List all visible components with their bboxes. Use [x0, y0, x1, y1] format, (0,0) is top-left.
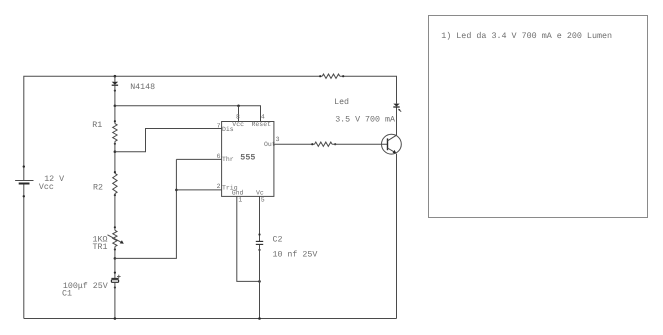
svg-text:3.5 V 700 mA: 3.5 V 700 mA	[335, 116, 395, 125]
resistor R4 base	[311, 142, 336, 146]
svg-text:Reset: Reset	[252, 121, 272, 128]
wire top rail left	[24, 76, 322, 180]
svg-text:C1: C1	[62, 289, 72, 298]
svg-text:C2: C2	[273, 236, 283, 245]
svg-text:7: 7	[217, 122, 221, 129]
wire 555 pin 3 Out to R4	[274, 143, 315, 145]
svg-text:4: 4	[261, 114, 265, 121]
node Dis junction	[114, 150, 117, 153]
wire bottom rail	[24, 318, 397, 320]
node Trig junction	[175, 189, 178, 192]
trimmer TR1 1K	[108, 226, 124, 250]
node bottom rail junction C1	[114, 317, 117, 320]
wire Dis node to 555 pin 7	[115, 129, 222, 152]
wire R4 to transistor base	[332, 143, 387, 145]
svg-text:N4148: N4148	[130, 83, 155, 92]
battery B1 12V	[15, 165, 33, 197]
svg-text:3: 3	[276, 136, 280, 143]
op-amp U1 555 body	[222, 122, 274, 197]
wire 555 pin 5 Vc to C2	[259, 196, 261, 241]
wire R1 to Dis node	[114, 141, 116, 151]
svg-text:Vc: Vc	[256, 189, 264, 196]
wire wiper node to C1	[114, 258, 116, 278]
svg-text:555: 555	[240, 153, 255, 163]
capacitor C1 100uF 25V	[111, 272, 120, 289]
diode D2 N4148	[112, 82, 118, 92]
wire Vcc node to R1	[114, 106, 116, 124]
svg-text:8: 8	[236, 114, 240, 121]
wire emitter to bottom rail	[396, 154, 398, 319]
svg-text:6: 6	[217, 153, 221, 160]
LED D1	[393, 104, 401, 112]
resistor R1	[113, 120, 117, 145]
svg-text:Gnd: Gnd	[232, 189, 244, 196]
svg-text:TR1: TR1	[93, 243, 108, 252]
wire TR1 to wiper node	[114, 247, 116, 259]
svg-text:R1: R1	[92, 121, 102, 130]
svg-text:5: 5	[261, 196, 265, 203]
wire left rail lower	[23, 184, 25, 319]
svg-text:Vcc: Vcc	[39, 183, 54, 192]
svg-text:1: 1	[238, 196, 242, 203]
node wiper junction	[114, 257, 117, 260]
node bottom rail junction C2	[258, 317, 261, 320]
resistor R2	[113, 171, 117, 196]
wire 555 pin 1 Gnd down to ground node	[237, 196, 260, 281]
wire top rail right	[340, 76, 397, 103]
svg-text:Dis: Dis	[222, 126, 234, 133]
svg-text:Vcc: Vcc	[232, 121, 244, 128]
node gnd junction	[258, 280, 261, 283]
wire LED cathode to collector	[396, 107, 398, 135]
wire Trig to 555 pin 2	[176, 189, 221, 191]
node Vcc junction	[114, 105, 117, 108]
wire wiper node to Thr/Trig	[115, 159, 176, 258]
wire R2 to TR1	[114, 194, 116, 231]
node junction top rail / diode branch	[114, 75, 117, 78]
wire Thr to 555 pin 6	[176, 158, 221, 160]
svg-text:10 nf 25V: 10 nf 25V	[273, 249, 318, 259]
wire C2 to bottom rail	[259, 245, 261, 319]
wire Vcc node to 555 pin 4	[115, 106, 261, 122]
resistor R3 top rail	[319, 74, 344, 78]
note box	[429, 16, 648, 218]
wire top rail to diode	[114, 76, 116, 82]
wire C1 to bottom rail	[114, 282, 116, 318]
svg-text:R2: R2	[93, 184, 103, 193]
svg-text:Led: Led	[334, 97, 349, 107]
svg-text:1) Led da 3.4 V 700 mA e 200 L: 1) Led da 3.4 V 700 mA e 200 Lumen	[441, 31, 612, 41]
svg-text:2: 2	[217, 183, 221, 190]
svg-text:Thr: Thr	[222, 156, 234, 163]
capacitor C2 10nf	[256, 233, 263, 251]
wire Dis node to R2	[114, 152, 116, 174]
transistor Q1	[382, 134, 402, 154]
wire diode to Vcc node	[114, 85, 116, 106]
node pin 8 tap	[237, 105, 240, 108]
wire pin 8 drop	[238, 106, 240, 122]
